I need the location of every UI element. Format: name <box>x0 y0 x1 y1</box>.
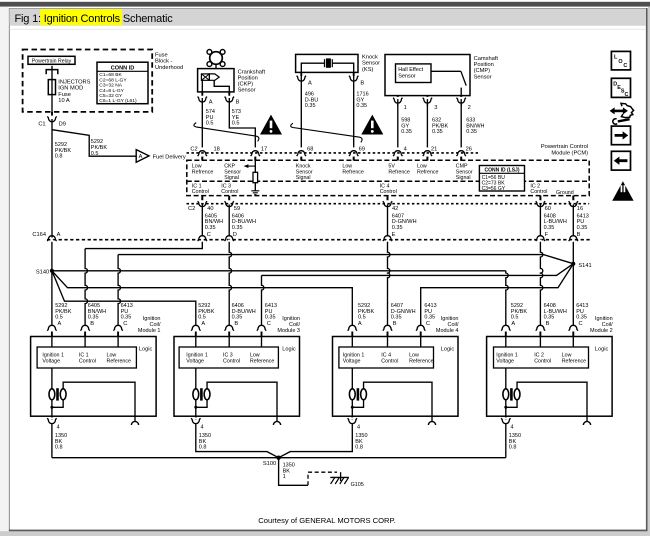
toolbar icon OBD II triangle <box>612 181 633 201</box>
svg-text:40: 40 <box>207 206 213 212</box>
secondary to output terminal Module 4 <box>364 382 432 421</box>
svg-text:0.35: 0.35 <box>424 315 435 321</box>
wire 598 GY 0.35 <box>397 104 399 151</box>
svg-text:4: 4 <box>404 147 407 153</box>
svg-text:0.35: 0.35 <box>232 315 243 321</box>
svg-text:68: 68 <box>307 147 313 153</box>
PCM C2 bottom connector row <box>187 203 590 205</box>
svg-text:B: B <box>393 321 397 327</box>
PCM bottom pin connectors <box>201 196 203 201</box>
svg-text:C: C <box>623 63 627 69</box>
svg-text:Ignition 1: Ignition 1 <box>496 352 518 358</box>
svg-text:C4=8 L-GY: C4=8 L-GY <box>99 88 124 94</box>
wire 6407 C164-E to module4 B <box>388 242 390 326</box>
PCM pin 68 connector <box>300 155 303 157</box>
wire module1 pin4 to bus <box>51 424 53 458</box>
Module 4 coil output terminal <box>428 421 435 425</box>
svg-text:A: A <box>511 321 515 327</box>
svg-text:B: B <box>360 80 364 86</box>
fuse INJECTORS IGN MOD 10A <box>48 80 55 95</box>
svg-text:0.5: 0.5 <box>198 315 206 321</box>
module logic box Module 4 <box>339 347 434 368</box>
CKP signal direction arrow <box>247 165 255 167</box>
Module 3 pin 4 connector <box>194 417 197 419</box>
svg-text:Fuse: Fuse <box>58 92 71 98</box>
svg-text:0.35: 0.35 <box>88 315 99 321</box>
wire 6406 C164-D to module3 B <box>229 242 231 326</box>
warning triangle KS circuit <box>361 115 383 135</box>
svg-text:0.8: 0.8 <box>199 445 207 451</box>
wire 6405 BN/WH 0.35 <box>201 207 203 237</box>
faint separator under title <box>10 29 646 30</box>
svg-text:Low: Low <box>250 352 260 358</box>
svg-text:C: C <box>579 321 583 327</box>
wire C164-B to S141 <box>572 242 574 264</box>
svg-text:21: 21 <box>431 147 437 153</box>
PCM pin 69 connector <box>352 155 355 157</box>
PCM internal divider <box>187 180 589 182</box>
svg-text:C: C <box>267 321 271 327</box>
svg-text:0.8: 0.8 <box>355 445 363 451</box>
svg-text:0.5: 0.5 <box>511 315 519 321</box>
svg-text:IC 2: IC 2 <box>534 352 544 358</box>
svg-text:Voltage: Voltage <box>42 359 60 365</box>
svg-text:CONN ID: CONN ID <box>111 65 135 71</box>
wire 574 PU 0.5 <box>201 102 203 151</box>
Module 4 pin C connector <box>419 329 422 331</box>
C164 pin B connector <box>572 240 575 242</box>
ignition coil windings Module 4 <box>351 368 353 389</box>
svg-text:0.5: 0.5 <box>206 121 214 127</box>
svg-text:0.35: 0.35 <box>265 315 276 321</box>
svg-text:B: B <box>236 100 240 106</box>
svg-text:S141: S141 <box>578 263 591 269</box>
Module 2 pin B connector <box>539 329 542 331</box>
wire 6413 S141 to module2 C <box>572 264 574 326</box>
Module 1 pin A connector <box>51 329 54 331</box>
svg-text:Refrence: Refrence <box>192 169 214 175</box>
svg-text:A: A <box>358 321 362 327</box>
CKP sensor box <box>215 64 217 69</box>
bottom outside margin <box>0 531 650 536</box>
svg-text:Ignition: Ignition <box>143 316 161 322</box>
Module 3 coil output terminal <box>273 421 280 425</box>
svg-text:0.35: 0.35 <box>356 103 367 109</box>
PCM pin 16 connector <box>572 200 575 202</box>
svg-text:Voltage: Voltage <box>496 359 514 365</box>
C164 pin A connector <box>51 240 54 242</box>
wire module3 pin4 to S100 <box>196 424 279 458</box>
svg-text:Signal: Signal <box>224 175 239 181</box>
Module 4 pin A connector <box>351 329 354 331</box>
wire relay to fuse <box>51 66 53 80</box>
KS pin A connector <box>300 75 303 77</box>
connector C164 row <box>47 239 591 241</box>
svg-text:4: 4 <box>201 425 204 431</box>
CKP internal wires <box>201 80 203 92</box>
powertrain relay K1 box <box>28 56 75 64</box>
wire fuse to C1 <box>51 112 53 117</box>
wire 632 PK/BK 0.35 <box>426 104 428 151</box>
wire 5292 S140 to module1 A <box>51 271 53 326</box>
CMP pin 3 connector <box>426 97 429 99</box>
PCM internal ground <box>251 191 259 195</box>
svg-text:Position: Position <box>474 62 494 68</box>
CMP switch symbol <box>431 70 461 72</box>
svg-text:C: C <box>426 321 430 327</box>
PCM pin 59 connector <box>228 200 231 202</box>
CKP pickup coil symbol <box>201 74 209 80</box>
splice S141 <box>571 262 575 266</box>
Module 2 coil output terminal <box>583 421 590 425</box>
svg-text:0.35: 0.35 <box>576 315 587 321</box>
svg-text:Underhood: Underhood <box>155 65 183 71</box>
svg-text:Logic: Logic <box>139 346 153 352</box>
svg-text:Low: Low <box>409 352 419 358</box>
C164 pin F connector <box>539 240 542 242</box>
svg-text:Ignition: Ignition <box>441 316 459 322</box>
CONN ID table <box>97 62 148 103</box>
wire C164-A to S140 <box>51 242 53 271</box>
svg-text:Voltage: Voltage <box>186 359 204 365</box>
svg-text:Logic: Logic <box>441 346 455 352</box>
svg-text:Coil/: Coil/ <box>602 322 613 328</box>
svg-text:Voltage: Voltage <box>343 359 361 365</box>
svg-text:Crankshaft: Crankshaft <box>238 69 266 75</box>
svg-text:Fuse: Fuse <box>155 53 168 59</box>
hall effect sensor box <box>396 64 432 83</box>
svg-text:0.8: 0.8 <box>55 154 63 160</box>
svg-text:0.35: 0.35 <box>305 103 316 109</box>
svg-text:Reference: Reference <box>409 359 433 365</box>
svg-text:0.8: 0.8 <box>55 445 63 451</box>
svg-text:D: D <box>233 232 237 238</box>
svg-text:OBD II: OBD II <box>617 196 629 200</box>
svg-text:Low: Low <box>107 352 117 358</box>
module logic box Module 1 <box>37 347 136 368</box>
knock sensor piezo element <box>301 63 324 72</box>
ignition coil windings Module 2 <box>505 368 507 389</box>
svg-text:B: B <box>577 232 581 238</box>
svg-text:B: B <box>234 321 238 327</box>
top dark bar <box>0 2 650 7</box>
CMP pins 1 3 2 <box>397 96 399 99</box>
warning triangle CKP circuit <box>260 115 282 135</box>
svg-text:C2=68 L-GY: C2=68 L-GY <box>99 77 127 83</box>
CKP pigtail pins <box>201 92 203 96</box>
svg-text:C: C <box>207 232 211 238</box>
svg-text:A: A <box>58 321 62 327</box>
svg-text:IGN MOD: IGN MOD <box>58 86 83 92</box>
svg-text:C6=1 L-GY (L61): C6=1 L-GY (L61) <box>99 98 137 104</box>
svg-text:Coil/: Coil/ <box>149 322 160 328</box>
svg-text:1: 1 <box>404 105 407 111</box>
svg-text:Coil/: Coil/ <box>289 322 300 328</box>
svg-text:Low: Low <box>562 352 572 358</box>
C164 pin E connector <box>386 240 389 242</box>
secondary to output terminal Module 2 <box>517 382 587 421</box>
wires into logic box Module 1 <box>52 332 118 337</box>
fuse block underhood dashed box <box>23 50 153 112</box>
svg-text:Courtesy of GENERAL MOTORS COR: Courtesy of GENERAL MOTORS CORP. <box>258 516 395 525</box>
wire 1716 GY 0.35 <box>353 72 355 76</box>
svg-text:Module 3: Module 3 <box>277 328 300 334</box>
CMP sensor box <box>385 55 470 96</box>
Module 2 pin 4 connector <box>504 417 507 419</box>
svg-text:0.35: 0.35 <box>544 315 555 321</box>
fuel delivery arrow A <box>136 150 149 163</box>
svg-text:C164: C164 <box>32 232 46 238</box>
wires into logic box Module 2 <box>506 332 574 337</box>
svg-text:Fig 1: Ignition Controls Schem: Fig 1: Ignition Controls Schematic <box>15 13 174 25</box>
svg-text:Module 1: Module 1 <box>138 328 161 334</box>
Module 4 pin B connector <box>386 329 389 331</box>
wire module4 pin4 to S100 <box>279 424 353 458</box>
toolbar button DESC <box>611 78 630 97</box>
wire 6406 D-BU/WH 0.35 <box>228 207 230 237</box>
svg-text:0.5: 0.5 <box>358 315 366 321</box>
module logic box Module 3 <box>179 347 278 368</box>
title bar <box>10 9 646 26</box>
svg-text:0.35: 0.35 <box>544 225 555 231</box>
svg-text:Logic: Logic <box>282 346 296 352</box>
splice S140 <box>50 269 54 273</box>
svg-text:Module (PCM): Module (PCM) <box>551 151 588 157</box>
secondary to output terminal Module 3 <box>207 382 277 421</box>
svg-text:CONN ID (LSJ): CONN ID (LSJ) <box>485 167 520 173</box>
knock sensor KS box <box>296 54 358 72</box>
svg-text:Control: Control <box>530 189 547 195</box>
ignition coil windings Module 1 <box>51 368 53 389</box>
svg-text:Hall Effect: Hall Effect <box>398 67 423 73</box>
svg-text:A: A <box>139 154 143 160</box>
svg-text:Reference: Reference <box>107 359 131 365</box>
svg-text:S140: S140 <box>36 269 49 275</box>
svg-text:Ignition 1: Ignition 1 <box>42 352 64 358</box>
svg-text:Refrence: Refrence <box>342 169 364 175</box>
PCM pin 21 connector <box>426 155 429 157</box>
svg-text:Ignition 1: Ignition 1 <box>186 352 208 358</box>
wire 5292 PK/BK 0.8 down to C164-A <box>51 123 53 238</box>
svg-text:0.35: 0.35 <box>391 315 402 321</box>
svg-text:(CKP): (CKP) <box>238 82 254 88</box>
svg-text:0.8: 0.8 <box>509 445 517 451</box>
wires into logic box Module 4 <box>352 332 420 337</box>
coil common to pin 4 Module 1 <box>51 400 53 416</box>
svg-text:Control: Control <box>79 359 96 365</box>
svg-text:S100: S100 <box>263 461 276 467</box>
svg-text:Ignition: Ignition <box>282 316 300 322</box>
C164 pin D connector <box>228 240 231 242</box>
PCM dashed box <box>187 160 589 195</box>
svg-text:Refrence: Refrence <box>417 169 439 175</box>
dashed ground lead <box>308 472 337 485</box>
svg-text:C1=68 BK: C1=68 BK <box>99 72 122 78</box>
wire 6408 C164-F to module2 B <box>540 242 542 326</box>
svg-text:O: O <box>618 59 622 65</box>
svg-text:C: C <box>123 321 127 327</box>
CKP pin A connector <box>201 96 204 98</box>
svg-text:Control: Control <box>534 359 551 365</box>
svg-text:0.5: 0.5 <box>232 121 240 127</box>
KS pin B connector <box>352 75 355 77</box>
svg-text:Control: Control <box>192 189 209 195</box>
secondary to output terminal Module 1 <box>63 382 135 421</box>
svg-text:0.35: 0.35 <box>232 225 243 231</box>
Module 4 pin 4 connector <box>351 417 354 419</box>
svg-text:69: 69 <box>359 147 365 153</box>
toolbar button next arrow <box>611 126 630 145</box>
svg-text:A: A <box>308 80 312 86</box>
svg-text:Control: Control <box>380 189 397 195</box>
svg-text:D9: D9 <box>59 121 66 127</box>
wire 6413 PU 0.35 <box>572 207 574 237</box>
svg-text:Ignition: Ignition <box>595 316 613 322</box>
svg-text:10 A: 10 A <box>58 98 70 104</box>
connector C1/D9 <box>51 116 54 118</box>
svg-text:Reference: Reference <box>250 359 274 365</box>
svg-text:A: A <box>57 232 61 238</box>
svg-text:4: 4 <box>511 425 514 431</box>
ground bus 1350 <box>52 457 506 459</box>
svg-text:Control: Control <box>221 189 238 195</box>
relay contact symbol <box>46 70 58 75</box>
svg-text:0.35: 0.35 <box>401 129 412 135</box>
CKP reluctor wheel symbol <box>210 52 223 65</box>
svg-text:Knock: Knock <box>362 55 378 61</box>
svg-text:Signal: Signal <box>456 175 471 181</box>
svg-text:Control: Control <box>223 359 240 365</box>
Module 3 pin A connector <box>194 329 197 331</box>
ignition coil windings Module 3 <box>195 368 197 389</box>
svg-text:(CMP): (CMP) <box>474 68 491 74</box>
wire 6413 S141 to module1 C <box>118 255 573 264</box>
PCM pin 40 connector <box>201 200 204 202</box>
toolbar button LOC <box>611 51 630 70</box>
svg-text:IC 4: IC 4 <box>381 352 391 358</box>
svg-text:17: 17 <box>261 147 267 153</box>
svg-text:Control: Control <box>381 359 398 365</box>
wire 6408 L-BU/WH 0.35 <box>539 207 541 237</box>
PCM C2 top connector row <box>187 152 479 154</box>
Module 2 pin A connector <box>504 329 507 331</box>
svg-text:B: B <box>90 321 94 327</box>
splice S100 <box>276 456 280 460</box>
CONN ID (LSJ) table <box>479 166 524 192</box>
wire 5292 S140 to module3 A <box>52 271 196 326</box>
PCM pin 18 connector <box>201 155 204 157</box>
wire 573 YE 0.5 <box>229 102 255 151</box>
coil common to pin 4 Module 4 <box>351 400 353 416</box>
wire 496 D-BU 0.35 <box>300 72 302 76</box>
wire 6413 S141 to module4 C <box>421 264 574 326</box>
svg-text:Module 4: Module 4 <box>436 328 459 334</box>
PCM internal resistor <box>254 160 256 172</box>
Module 3 pin B connector <box>228 329 231 331</box>
Module 3 pin C connector <box>260 329 263 331</box>
PCM pin 17 connector <box>254 155 257 157</box>
toolbar icon compare arrows and wrench <box>610 103 634 124</box>
svg-text:E: E <box>392 232 396 238</box>
svg-text:C1: C1 <box>38 121 45 127</box>
CMP pin 2 connector <box>460 97 463 99</box>
CKP pin B connector <box>228 96 231 98</box>
svg-text:0.5: 0.5 <box>91 151 99 157</box>
Module 1 pin C connector <box>117 329 120 331</box>
Module 1 pin B connector <box>84 329 87 331</box>
svg-text:Sensor: Sensor <box>238 88 256 94</box>
wires into logic box Module 3 <box>196 332 262 337</box>
svg-text:C3=56 GY: C3=56 GY <box>482 186 506 192</box>
coil common to pin 4 Module 3 <box>195 400 197 416</box>
wire branch 5292 PK/BK 0.5 to fuel delivery <box>52 130 136 157</box>
svg-text:Refrence: Refrence <box>388 169 410 175</box>
svg-text:Powertrain Relay: Powertrain Relay <box>32 58 72 64</box>
svg-text:Sensor: Sensor <box>474 74 492 80</box>
wire 6407 D-GN/WH 0.35 <box>387 207 389 237</box>
wire 5292 S140 to module4 A <box>52 271 352 326</box>
twisted pair marker KS <box>291 123 362 142</box>
Module 1 pin 4 connector <box>51 417 54 419</box>
svg-text:16: 16 <box>577 206 583 212</box>
svg-text:A: A <box>201 321 205 327</box>
svg-text:0.35: 0.35 <box>392 225 403 231</box>
svg-text:0.35: 0.35 <box>205 225 216 231</box>
CMP pin 1 connector <box>396 97 399 99</box>
svg-text:Camshaft: Camshaft <box>474 56 499 62</box>
svg-text:4: 4 <box>357 425 360 431</box>
svg-text:Reference: Reference <box>562 359 586 365</box>
PCM top pin connectors <box>201 147 203 150</box>
PCM pin 42 connector <box>386 200 389 202</box>
PCM pin 26 connector <box>460 155 463 157</box>
svg-text:C5=32 GY: C5=32 GY <box>99 93 123 99</box>
svg-text:59: 59 <box>234 206 240 212</box>
svg-text:0.35: 0.35 <box>466 129 477 135</box>
svg-text:4: 4 <box>57 425 60 431</box>
svg-text:B: B <box>546 321 550 327</box>
svg-text:Powertrain Control: Powertrain Control <box>541 144 588 150</box>
svg-text:18: 18 <box>214 147 220 153</box>
Module 1 coil output terminal <box>131 421 138 425</box>
svg-text:0.5: 0.5 <box>55 315 63 321</box>
svg-text:Coil/: Coil/ <box>447 322 458 328</box>
svg-text:Sensor: Sensor <box>362 61 380 67</box>
svg-text:C2: C2 <box>188 206 195 212</box>
svg-text:3: 3 <box>434 105 437 111</box>
svg-text:C: C <box>625 92 629 98</box>
wire 1350 BK 1 to ground <box>279 458 308 486</box>
svg-text:Ground: Ground <box>556 190 574 196</box>
svg-text:INJECTORS: INJECTORS <box>58 80 90 86</box>
svg-text:F: F <box>545 232 549 238</box>
wire 5292 S140 to module2 A <box>52 270 506 272</box>
svg-text:Module 2: Module 2 <box>590 328 613 334</box>
svg-text:(KS): (KS) <box>362 67 373 73</box>
svg-text:Signal: Signal <box>296 175 311 181</box>
svg-text:G105: G105 <box>351 482 364 488</box>
svg-text:1: 1 <box>283 474 286 480</box>
svg-text:C3=32 NA: C3=32 NA <box>99 83 122 89</box>
wire 6413 S141 to module3 C <box>262 264 574 276</box>
svg-text:C2: C2 <box>190 147 197 153</box>
svg-text:0.35: 0.35 <box>577 225 588 231</box>
svg-text:42: 42 <box>392 206 398 212</box>
C164 pin C connector <box>201 240 204 242</box>
svg-text:Block -: Block - <box>155 59 172 65</box>
svg-text:0.35: 0.35 <box>121 315 132 321</box>
right outside margin <box>648 7 650 532</box>
